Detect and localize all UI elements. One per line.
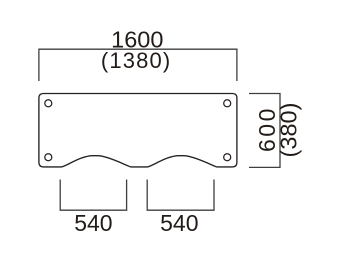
svg-text:540: 540 [74, 210, 112, 236]
svg-text:(1380): (1380) [101, 48, 172, 73]
svg-text:(380): (380) [276, 103, 302, 158]
svg-text:540: 540 [160, 210, 198, 236]
